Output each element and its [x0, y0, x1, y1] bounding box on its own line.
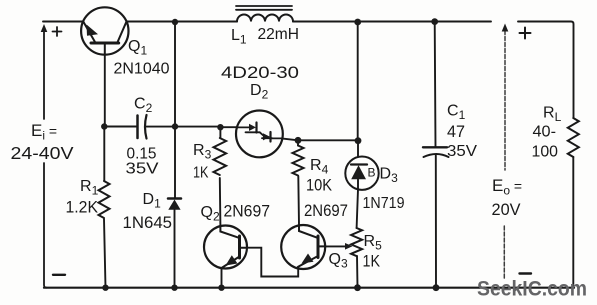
wire Q1 base down [104, 55, 106, 127]
node ground D1 [171, 285, 177, 291]
svg-text:22mH: 22mH [258, 26, 300, 43]
node ground Q2 emitter [218, 285, 224, 291]
svg-text:D3: D3 [380, 166, 399, 186]
svg-text:1.2K: 1.2K [66, 199, 99, 217]
capacitor C1 [423, 22, 449, 288]
wire D1 junction to R3 junction [175, 126, 220, 128]
resistor RL [568, 118, 579, 157]
capacitor C2 [138, 115, 147, 139]
wire top rail right with corner [518, 22, 574, 119]
svg-text:1N645: 1N645 [123, 214, 173, 232]
svg-text:1K: 1K [363, 253, 381, 271]
svg-text:1N719: 1N719 [363, 195, 405, 212]
svg-text:R3: R3 [193, 142, 212, 162]
wire rail down to D1 junction [174, 22, 176, 127]
wire D2 to R4 junction to D3 junction [283, 139, 358, 141]
voltage indicator Eo [502, 24, 531, 281]
transistor Q3 [281, 225, 325, 269]
svg-text:47: 47 [447, 123, 465, 141]
svg-text:10K: 10K [306, 177, 332, 195]
node D2 exit / R4 [295, 137, 302, 144]
node ground R1 [102, 285, 108, 291]
wire D3 to R5 [357, 189, 358, 228]
svg-text:4D20-30: 4D20-30 [221, 63, 299, 82]
svg-text:D2: D2 [250, 82, 269, 102]
zener reference diode D3 [345, 141, 378, 190]
svg-text:L1: L1 [231, 27, 247, 47]
node top rail at C1 [431, 18, 438, 25]
svg-text:B: B [368, 166, 376, 180]
node D3 top [355, 137, 362, 144]
wire top rail left [43, 21, 83, 23]
svg-text:Q2: Q2 [201, 204, 220, 224]
svg-text:D1: D1 [143, 191, 162, 211]
svg-text:SeekIC.com: SeekIC.com [477, 277, 587, 301]
resistor R4 [293, 140, 304, 225]
wire C2 to D1 junction [147, 126, 176, 128]
svg-text:40-: 40- [533, 124, 557, 141]
inductor L1 [236, 6, 293, 22]
resistor R1 [99, 127, 110, 288]
svg-text:24-40V: 24-40V [11, 143, 74, 163]
node top rail at x175 [172, 19, 178, 25]
wire Q1 collector to L1 [127, 21, 237, 23]
svg-text:20V: 20V [492, 201, 521, 219]
node C2 / D1 [172, 123, 178, 129]
resistor R3 [214, 127, 227, 226]
svg-text:Eo =: Eo = [492, 176, 522, 198]
svg-text:100: 100 [532, 144, 559, 161]
svg-text:R4: R4 [310, 157, 329, 177]
svg-text:Q1: Q1 [128, 38, 147, 58]
svg-text:2N697: 2N697 [224, 202, 271, 221]
svg-text:R1: R1 [80, 178, 99, 198]
wire top rail to D3 junction [357, 22, 359, 141]
resistor R5 potentiometer [351, 228, 362, 288]
svg-text:C2: C2 [134, 96, 153, 116]
svg-text:1K: 1K [193, 165, 209, 182]
wire bottom rail [44, 287, 574, 289]
svg-text:2N1040: 2N1040 [114, 61, 170, 78]
node top rail at D3 column [354, 19, 361, 26]
node ground C1 [433, 284, 440, 291]
wire L1 to rail gap [293, 21, 491, 23]
svg-text:35V: 35V [126, 161, 159, 178]
node Q1 base / C2 / R1 [101, 123, 107, 129]
transistor Q2 [204, 226, 247, 269]
diode D1 [168, 127, 181, 288]
wire Q2 emitter to ground [221, 268, 223, 288]
svg-text:C1: C1 [447, 103, 466, 123]
svg-text:2N697: 2N697 [304, 201, 348, 220]
svg-text:Q3: Q3 [329, 251, 348, 271]
wire base junction to C2 [104, 126, 136, 128]
svg-text:35V: 35V [447, 143, 478, 160]
wire Q3 base to R5 wiper arrow [325, 243, 352, 250]
svg-text:Ei =: Ei = [31, 121, 57, 143]
node ground R5 [354, 284, 361, 291]
voltage indicator Ei [41, 24, 65, 288]
four-layer diode D2 [236, 110, 283, 157]
wire Q2 base to Q3 emitter staircase [247, 248, 298, 277]
svg-text:R5: R5 [364, 233, 383, 253]
svg-text:RL: RL [543, 105, 562, 125]
wire R3 junction to D2 [220, 126, 237, 128]
node R3 top [217, 124, 223, 130]
wire RL bottom [572, 157, 574, 288]
transistor Q1 [81, 7, 128, 54]
